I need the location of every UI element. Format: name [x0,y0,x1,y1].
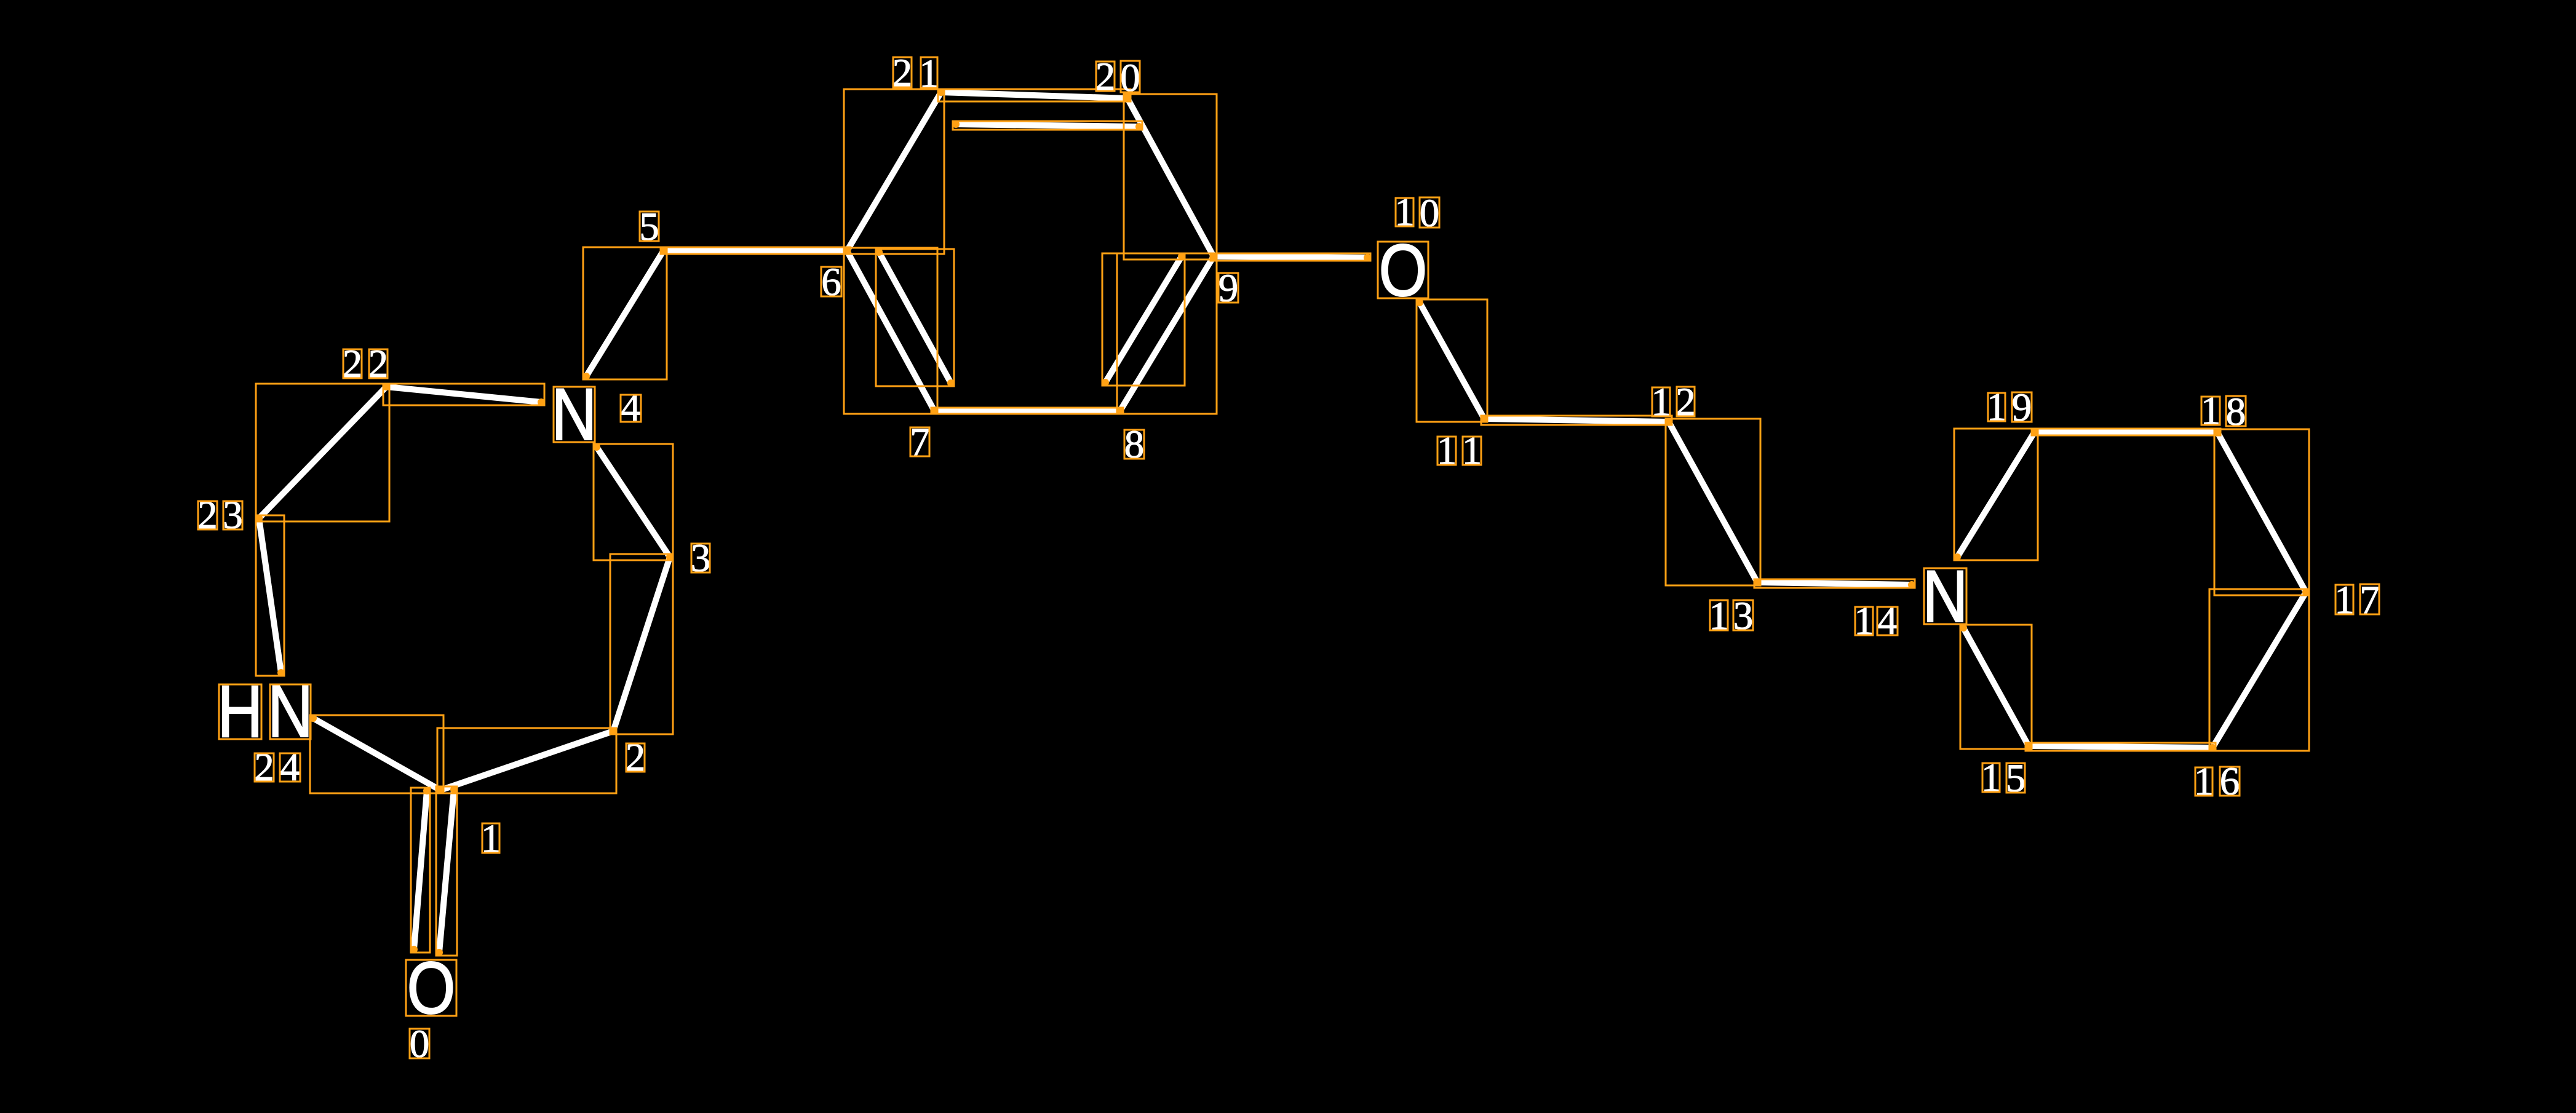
node atom 2 [610,728,616,734]
svg-text:1: 1 [1394,190,1415,234]
bbox of bond 5-6 [661,247,850,254]
bbox of bond 19-18 [2032,429,2220,435]
bbox of bond 6-21 [844,89,944,254]
index label 18 [2201,389,2246,434]
bbox of bond 7-8 [931,408,1123,414]
index label 7 [910,420,930,464]
bond 22-N4 [386,387,541,402]
node atom 15 [2025,743,2032,749]
svg-text:4: 4 [280,745,300,790]
index label 15 [1981,756,2026,801]
bbox of bond N4-5 [583,247,667,379]
index label 4 [621,386,641,430]
bond 1-2 [440,731,613,790]
bbox of bond HN24-1 [310,715,443,793]
atom N4 label [552,373,597,456]
bond 2-3 [613,557,670,731]
bond 23-HN24 [259,518,281,673]
bbox of bond 2-3 [610,554,673,734]
svg-text:1: 1 [1854,599,1874,643]
bond 6=7 inner [879,252,951,383]
index label 23 [197,493,243,537]
bond 21-20 main [941,92,1127,98]
svg-text:2: 2 [626,735,646,780]
bbox of bond 21=20 inner [953,121,1142,130]
bbox of bond 9-O10 [1210,253,1370,261]
bbox of bond 20-9 [1124,94,1217,259]
bbox of bond 3-N4 [594,444,673,560]
node atom 7 [931,408,937,414]
node atom 23 [256,515,262,521]
bbox of bond 6-7 main [844,248,937,414]
node atom 22 [383,384,389,390]
bond N14-19 [1957,432,2035,557]
bbox of bond O10-11 [1417,299,1487,422]
bbox of bond 11-12 [1481,416,1672,425]
bond 8-9 main [1120,256,1214,411]
node atom 9 [1210,253,1217,259]
bbox of bond 23-HN24 [256,515,284,676]
index label 21 [892,51,939,96]
bbox of bond 22-N4 [383,384,544,405]
index label 24 [254,745,300,790]
svg-text:1: 1 [1987,385,2007,429]
bond 18-17 [2217,432,2306,592]
bbox of bond 18-17 [2214,429,2309,595]
index label 6 [821,260,841,304]
index label 20 [1095,55,1140,100]
bond 3-N4 [597,447,670,557]
node atom 3 [667,554,673,560]
bond 6-7 main [847,251,934,411]
index label 16 [2194,759,2240,804]
svg-text:4: 4 [1877,599,1898,643]
bond 19-18 [2035,432,2217,432]
node atom 16 [2209,745,2216,751]
bond 13-N14 [1757,582,1912,585]
index label 13 [1709,594,1753,638]
index label 17 [2334,578,2380,622]
index label 9 [1218,266,1239,311]
svg-text:H: H [218,670,263,753]
svg-text:1: 1 [1437,429,1457,473]
bbox of bond 12-13 [1666,419,1760,585]
bond 15-N14 [1963,628,2029,746]
node atom 1 [437,787,443,793]
svg-text:1: 1 [1462,429,1482,473]
bbox of bond 8=9 inner [1102,253,1185,386]
node atom 8 [1117,408,1123,414]
bbox of bond C1=O0 line b [436,786,457,956]
bbox of bond 15-N14 [1960,625,2032,749]
bbox of bond 1-2 [437,728,616,793]
index label 1 [481,817,501,861]
index label 2 [626,735,646,780]
index label 10 [1394,190,1439,236]
bbox of bond 17-16 [2209,589,2309,751]
node atom 12 [1666,419,1672,425]
svg-text:0: 0 [1120,56,1140,100]
bond 12-13 [1669,422,1757,582]
bbox of bond 6=7 inner [876,249,954,386]
index label 19 [1987,385,2032,430]
svg-text:1: 1 [2201,389,2221,433]
atom N24 label N [268,670,313,753]
index label 8 [1124,422,1145,467]
atom N24 label H [218,670,263,753]
bbox of bond 22-23 [256,384,389,521]
bond O10-11 [1420,303,1484,419]
bond 5-6 [664,250,847,251]
bond 9-O10 [1214,256,1367,258]
bond 22-23 [259,387,386,518]
bond 7-8 [934,408,1120,414]
node atom 21 [938,89,944,95]
node atom 20 [1124,94,1130,100]
index label 22 [343,342,389,386]
index label 12 [1651,380,1696,424]
bond 6-21 [847,92,941,251]
bond 11-12 [1484,419,1669,422]
svg-text:3: 3 [223,493,243,537]
node atom 19 [2032,429,2038,435]
bbox of bond N14-19 [1954,429,2038,560]
bbox of bond 16-15 [2025,743,2216,751]
bond 20-9 [1127,97,1214,256]
bond 8=9 inner [1105,256,1182,382]
svg-text:2: 2 [197,493,218,537]
bbox of bond 13-N14 [1754,579,1915,588]
node atom 17 [2303,589,2309,595]
atom N14 label [1923,555,1968,638]
index label 5 [639,205,659,249]
bbox of bond 8-9 main [1117,253,1217,414]
bond HN24-1 [313,718,440,790]
index label 0 [410,1022,430,1066]
svg-text:1: 1 [919,52,939,96]
index label 11 [1437,429,1482,473]
atom O0 label [406,947,456,1029]
node atom 13 [1754,579,1760,585]
bond N4-5 [586,250,664,376]
bbox of bond 21-20 main [938,89,1131,101]
svg-text:2: 2 [254,745,274,790]
bond C1=O0 line b [439,790,454,953]
node atom 11 [1481,416,1487,422]
atom O10 label [1378,229,1428,312]
node atom 5 [661,247,667,253]
svg-text:N: N [552,373,597,456]
svg-text:N: N [268,670,313,753]
bond endpoint dots [255,89,2310,956]
bond 21=20 inner [956,124,1139,127]
node atom 18 [2214,429,2220,435]
bond C1=O0 line a [414,791,427,949]
bond 17-16 [2212,592,2306,748]
bond 16-15 [2029,746,2212,748]
index label 14 [1854,599,1898,643]
svg-text:1: 1 [2194,759,2214,804]
node atom 6 [844,248,850,254]
bbox of bond C1=O0 line a [411,788,430,953]
index label 3 [691,536,711,580]
svg-text:4: 4 [621,386,641,430]
